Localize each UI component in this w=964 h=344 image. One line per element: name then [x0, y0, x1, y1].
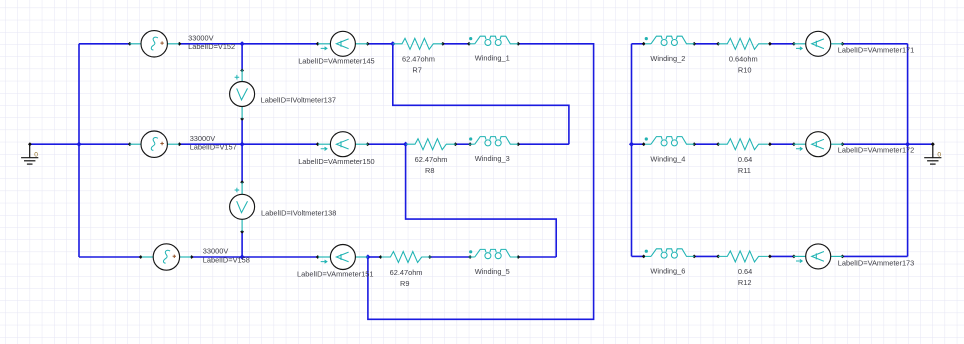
junction: row2 voltmeter taps	[240, 142, 245, 147]
svg-text:Winding_5: Winding_5	[475, 267, 510, 276]
junction: row1 voltmeter137 tap	[240, 41, 245, 46]
svg-text:LabelID=V158: LabelID=V158	[203, 255, 250, 264]
svg-text:LabelID=VAmmeter151: LabelID=VAmmeter151	[297, 270, 373, 279]
wire endpoint dots row1 left	[128, 42, 520, 46]
wire: right bus to ground	[908, 143, 933, 145]
wire: row1 bus to Winding_2	[632, 43, 644, 45]
wire: secondary left bus	[631, 44, 633, 257]
wire: row1 bus to V152	[79, 43, 130, 45]
inductor Winding_2	[645, 36, 695, 63]
ammeter VAmmeter171	[793, 31, 914, 56]
junction: secondary left bus / row2	[629, 142, 634, 147]
wire endpoint dots voltmeters	[240, 69, 244, 234]
wire endpoint dots secondary row1	[642, 42, 845, 46]
resistor R7	[393, 38, 443, 74]
wire: secondary right bus	[907, 44, 909, 257]
wire: voltmeter137 bottom branch	[241, 119, 243, 144]
wire endpoint dots row3 left	[139, 255, 520, 259]
ground node 0 (left)	[21, 142, 38, 164]
wire: left vertical bus	[78, 44, 80, 257]
inductor Winding_6	[645, 249, 695, 276]
wire: row1 V152 to ammeter145	[179, 43, 317, 45]
wire: node A to Winding_3 right (delta)	[393, 44, 569, 144]
wire endpoint dots secondary row2	[642, 142, 935, 146]
svg-text:LabelID=V152: LabelID=V152	[188, 42, 235, 51]
svg-text:0.64ohm: 0.64ohm	[729, 55, 758, 64]
svg-text:R8: R8	[425, 166, 434, 175]
wire: row1 R10 to ammeter171	[770, 43, 794, 45]
wire: ground left to row2	[30, 143, 130, 145]
resistor R12	[718, 251, 768, 287]
wire endpoint dots row2 left	[128, 142, 520, 146]
ammeter VAmmeter145	[298, 31, 374, 65]
resistor R9	[381, 252, 431, 288]
svg-text:R12: R12	[738, 278, 752, 287]
wire: Winding_3 right riser	[518, 143, 569, 145]
svg-text:62.47ohm: 62.47ohm	[402, 55, 435, 64]
svg-text:LabelID=VAmmeter171: LabelID=VAmmeter171	[838, 45, 914, 54]
resistor R10	[718, 38, 768, 74]
svg-text:62.47ohm: 62.47ohm	[415, 155, 448, 164]
ac source V157	[130, 131, 237, 157]
svg-text:Winding_3: Winding_3	[475, 154, 510, 163]
wire: row1 ammeter145 to node A	[368, 43, 393, 45]
voltmeter U138	[230, 182, 337, 231]
wire: row3 bus to V158	[79, 256, 141, 258]
wire: row2 R11 to ammeter172	[770, 143, 794, 145]
ammeter VAmmeter173	[793, 244, 914, 269]
wire: row3 node to R9	[368, 256, 381, 258]
svg-text:LabelID=IVoltmeter137: LabelID=IVoltmeter137	[261, 96, 336, 105]
svg-text:R9: R9	[400, 279, 409, 288]
wire: row2 ammeter150 to node B	[368, 143, 406, 145]
inductor Winding_1	[469, 36, 518, 62]
svg-text:R11: R11	[738, 166, 751, 175]
wire: row1 ammeter171 to right bus	[842, 43, 907, 45]
wire endpoint dots secondary row3	[642, 255, 845, 259]
wire: row3 ammeter173 to right bus	[842, 255, 907, 257]
svg-text:Winding_1: Winding_1	[475, 54, 510, 63]
svg-text:LabelID=VAmmeter145: LabelID=VAmmeter145	[298, 57, 374, 66]
ac source V158	[142, 244, 250, 270]
ammeter VAmmeter150	[298, 132, 374, 166]
wire: row2 Winding_4 to R11	[694, 143, 718, 145]
wire: Winding_1 right to node C (delta)	[368, 44, 594, 320]
wire: row1 Winding_2 to R10	[694, 43, 718, 45]
wire: row3 Winding_6 to R12	[694, 255, 718, 257]
svg-text:0.64: 0.64	[738, 267, 752, 276]
svg-text:LabelID=IVoltmeter138: LabelID=IVoltmeter138	[261, 208, 336, 217]
junction: secondary right bus / ground tap	[905, 142, 910, 147]
wire: row3 R12 to ammeter173	[770, 255, 794, 257]
wire: voltmeter138 top branch	[241, 144, 243, 182]
svg-text:LabelID=VAmmeter172: LabelID=VAmmeter172	[838, 146, 914, 155]
junction: node B	[403, 142, 408, 147]
svg-text:R10: R10	[738, 65, 752, 74]
resistor R8	[406, 139, 456, 175]
svg-text:LabelID=VAmmeter173: LabelID=VAmmeter173	[838, 258, 914, 267]
junction: row3 voltmeter138 tap	[240, 254, 245, 259]
wire: row3 bus to Winding_6	[632, 255, 644, 257]
voltmeter U137	[230, 70, 336, 119]
inductor Winding_3	[469, 137, 518, 163]
svg-text:LabelID=VAmmeter150: LabelID=VAmmeter150	[298, 157, 374, 166]
wire: node B to Winding_5 right (delta)	[406, 144, 557, 257]
resistor R11	[718, 139, 768, 175]
wire: row3 V158 to ammeter151	[192, 256, 318, 258]
svg-text:LabelID=V157: LabelID=V157	[190, 143, 237, 152]
svg-text:0: 0	[937, 151, 941, 158]
svg-text:Winding_6: Winding_6	[650, 266, 685, 275]
wire: row2 ammeter172 to right bus	[842, 143, 907, 145]
junction: node C	[365, 254, 370, 259]
wire: Winding_5 right riser	[518, 256, 556, 258]
wire: row2 V157 to ammeter150	[179, 143, 317, 145]
wire: voltmeter137 top branch	[241, 44, 243, 71]
svg-text:62.47ohm: 62.47ohm	[390, 268, 423, 277]
wire: row3 R9 to Winding_5	[430, 256, 470, 258]
svg-text:0.64: 0.64	[738, 155, 752, 164]
wire: row1 R7 to Winding_1	[443, 43, 469, 45]
svg-text:0: 0	[34, 151, 38, 158]
ammeter VAmmeter172	[793, 132, 914, 157]
ac source V152	[130, 31, 236, 57]
svg-text:R7: R7	[412, 65, 421, 74]
wire: voltmeter138 bottom branch	[241, 232, 243, 257]
svg-text:33000V: 33000V	[203, 247, 229, 256]
ammeter VAmmeter151	[297, 245, 373, 279]
junction: left bus / row2	[76, 142, 81, 147]
wire: row2 bus to Winding_4	[632, 143, 644, 145]
ground node 0 (right)	[924, 142, 941, 164]
wire: row2 R8 to Winding_3	[455, 143, 470, 145]
junction: node A	[390, 41, 395, 46]
inductor Winding_5	[469, 249, 518, 275]
inductor Winding_4	[645, 137, 695, 164]
svg-text:Winding_4: Winding_4	[650, 154, 685, 163]
svg-text:Winding_2: Winding_2	[650, 54, 685, 63]
